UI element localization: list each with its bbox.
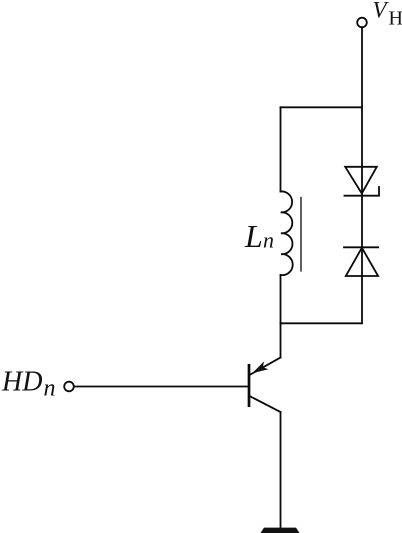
- inductor core line: [300, 198, 302, 272]
- transistor Q: emitter arrowhead: [252, 361, 268, 373]
- svg-text:V: V: [373, 0, 390, 23]
- diode D1 (zener, cathode down): [345, 167, 380, 196]
- svg-text:H: H: [389, 7, 402, 29]
- wire collector vertical: [280, 323, 282, 357]
- transistor Q: collector diagonal (lower): [250, 396, 281, 412]
- diode D2 (cathode up): [344, 247, 378, 276]
- wire from VH terminal down through diodes to bottom rail: [361, 27, 363, 323]
- wire top rail: [281, 106, 363, 108]
- svg-text:L: L: [244, 218, 263, 254]
- svg-text:n: n: [263, 228, 274, 253]
- wire bottom rail: [281, 322, 362, 324]
- svg-text:HD: HD: [1, 367, 42, 398]
- svg-text:n: n: [44, 376, 56, 402]
- transistor Q: emitter diagonal (upper): [250, 358, 281, 376]
- terminal HDn: [64, 382, 74, 392]
- wire left branch lower: [280, 275, 282, 323]
- ground: [261, 528, 300, 533]
- terminal VH: [357, 18, 367, 28]
- wire left branch upper: [280, 107, 282, 191]
- transistor Q: base bar: [248, 365, 251, 405]
- wire emitter down: [280, 412, 282, 528]
- inductor Ln coil: [281, 191, 293, 275]
- wire base from HD terminal: [74, 386, 249, 388]
